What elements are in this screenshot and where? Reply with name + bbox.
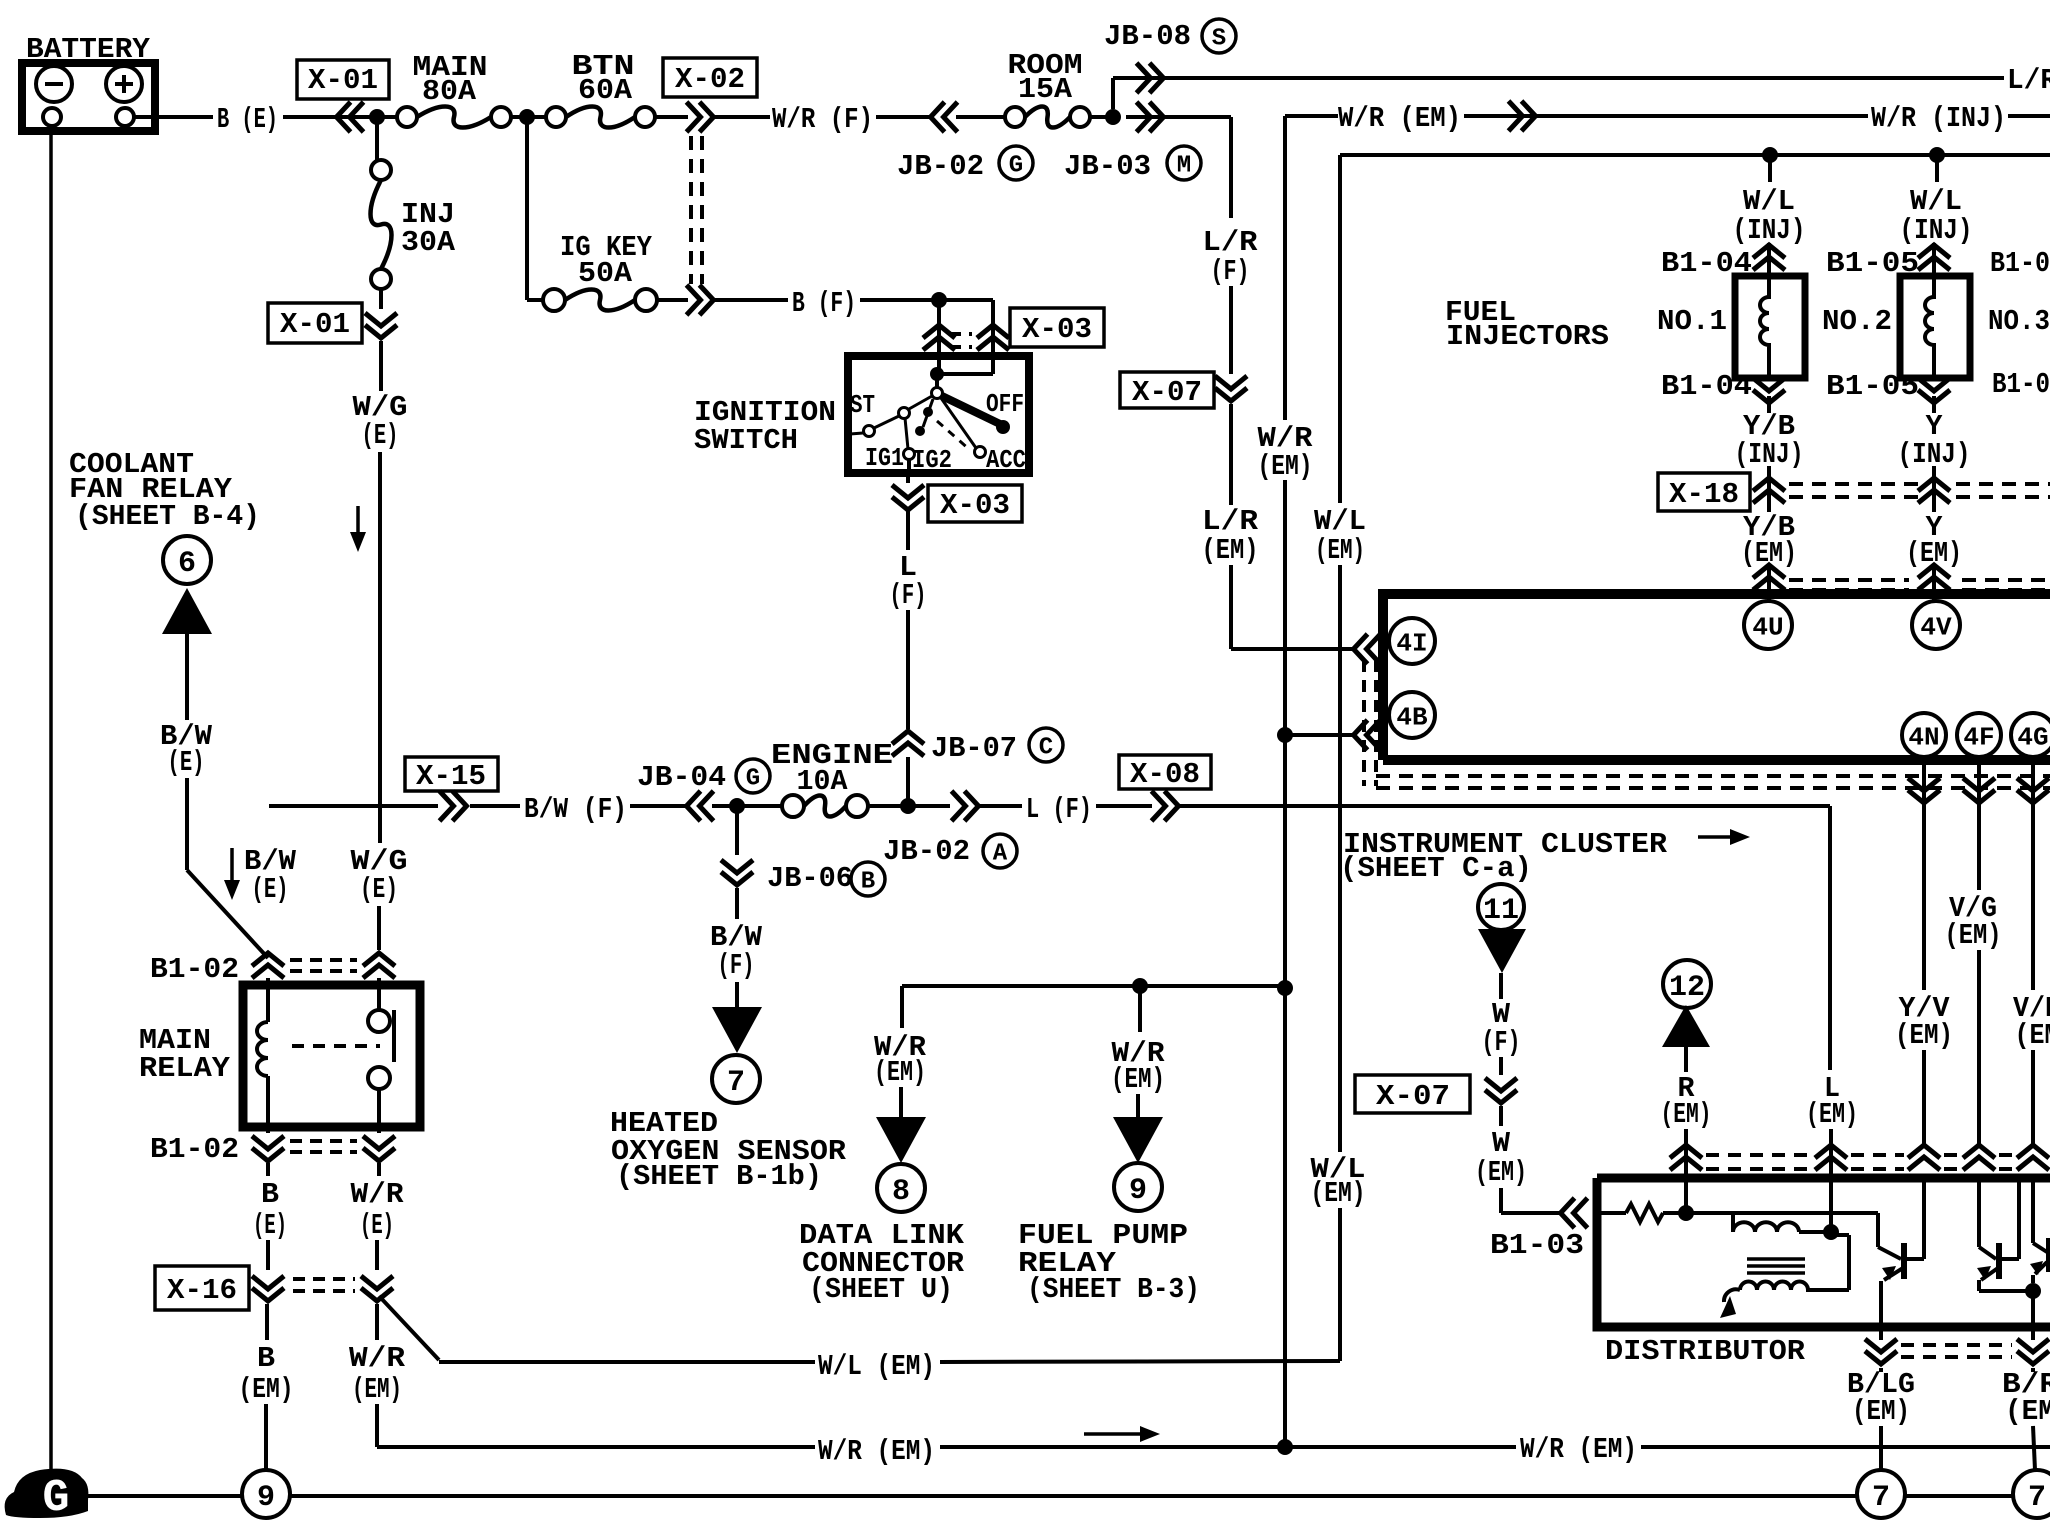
ignition contact ST <box>899 408 910 419</box>
svg-text:B1-0: B1-0 <box>1990 247 2050 280</box>
transistor Q3 bar <box>2046 1238 2050 1272</box>
svg-text:6: 6 <box>178 547 196 581</box>
svg-text:X-01: X-01 <box>280 308 350 341</box>
svg-text:B1-0: B1-0 <box>1992 368 2050 401</box>
battery negative terminal symbol <box>36 66 72 102</box>
distributor bottom dashed <box>1901 1343 2012 1347</box>
annotation arrow down B/W <box>230 848 234 886</box>
svg-text:B: B <box>861 869 875 896</box>
ignition contact IG2 <box>915 426 925 436</box>
connector X-03 chevron down <box>892 485 924 510</box>
ECU top dashed boundary <box>1789 578 1909 582</box>
junction JB-02A chevron <box>952 791 979 821</box>
wire W/R(EM) to chevron <box>1464 114 1868 118</box>
svg-text:NO.2: NO.2 <box>1822 305 1892 338</box>
svg-text:(EM): (EM) <box>1852 1395 1910 1428</box>
wire fuse to L junction <box>868 804 906 808</box>
wire B/W(F) left corner <box>269 804 438 808</box>
svg-text:(E): (E) <box>362 419 399 452</box>
svg-text:8: 8 <box>892 1175 910 1209</box>
svg-text:(EM: (EM <box>2015 1019 2050 1052</box>
circle 6 coolant fan relay <box>163 536 211 584</box>
wire W/R(EM) to ECU pin 4B <box>1285 733 1352 737</box>
wire coil to transistor base <box>1686 1211 1878 1215</box>
node junction dot JB-04 <box>729 798 745 814</box>
wire R(EM) <box>1684 1047 1688 1072</box>
ECU pin 4V circle <box>1912 601 1960 649</box>
connector X-15 chevron <box>440 791 467 821</box>
arrow instrument cluster <box>1698 835 1736 839</box>
ignition dashed linkage <box>937 421 970 450</box>
svg-text:(EM): (EM) <box>1806 1098 1858 1131</box>
wire between fuses <box>511 115 546 119</box>
svg-text:7: 7 <box>727 1066 745 1100</box>
wire to INJ fuse <box>375 117 379 160</box>
svg-text:B1-02: B1-02 <box>150 953 239 986</box>
connector X-02 dashed boundary <box>689 136 693 284</box>
svg-text:(EM): (EM) <box>1475 1156 1527 1189</box>
svg-text:10A: 10A <box>797 765 849 798</box>
svg-text:(EM: (EM <box>2005 1395 2050 1428</box>
connector X-16 box <box>155 1266 249 1310</box>
connector B1-04 chevron up <box>1753 245 1785 270</box>
svg-text:B: B <box>261 1178 279 1211</box>
svg-text:B: B <box>257 1342 275 1375</box>
svg-text:4B: 4B <box>1396 702 1428 732</box>
connector X-18 chevron 1 <box>1753 478 1785 503</box>
injector NO.2 coil <box>1925 276 1934 378</box>
node junction dot after ROOM fuse <box>1105 109 1121 125</box>
svg-text:9: 9 <box>257 1481 275 1515</box>
wire ROOM fuse to junction <box>1090 115 1113 119</box>
wire Y to ECU <box>1932 565 1936 601</box>
svg-text:S: S <box>1212 26 1226 53</box>
arrow from data link 12 <box>1662 1005 1710 1047</box>
wire top line to L/R sheet <box>1113 76 2004 80</box>
connector X-08 chevron <box>1152 791 1179 821</box>
circle 8 data link connector <box>877 1164 925 1212</box>
svg-text:(F): (F) <box>718 949 755 982</box>
svg-text:(EM): (EM) <box>1315 534 1365 567</box>
svg-text:W/R (EM): W/R (EM) <box>1520 1433 1637 1466</box>
junction JB-03 chevron <box>1137 102 1164 132</box>
fuse INJ 30A vertical <box>371 160 391 180</box>
connector B1-03 chevron <box>1561 1198 1588 1228</box>
wire B(E) below relay <box>266 1163 270 1176</box>
wire B/W(F) down <box>735 888 739 919</box>
transistor Q1 base path <box>1876 1213 1880 1247</box>
circle 12 data link <box>1663 960 1711 1008</box>
svg-text:OFF: OFF <box>986 389 1024 419</box>
wire INJ fuse to X-01 <box>379 289 383 309</box>
junction JB chevron left <box>931 102 958 132</box>
wire to ROOM fuse <box>956 115 1005 119</box>
svg-text:(EM): (EM) <box>1945 919 2002 952</box>
node distributor output dot <box>2025 1283 2041 1299</box>
svg-text:W/R (INJ): W/R (INJ) <box>1871 102 2006 135</box>
svg-text:NO.1: NO.1 <box>1657 305 1727 338</box>
fuel injector NO.1 box <box>1735 276 1805 378</box>
svg-text:(F): (F) <box>1211 255 1250 288</box>
wire Y/V from ECU 4N <box>1922 806 1926 990</box>
connector chevron W/R INJ <box>1509 101 1536 131</box>
ECU pin 4B circle <box>1389 692 1435 738</box>
transistor Q3 emitter <box>2035 1262 2047 1274</box>
wire B(E) battery positive to X-01 <box>134 115 213 119</box>
battery terminal posts <box>43 108 61 126</box>
transistor Q2 bar <box>1996 1243 2002 1279</box>
wire L/R(F) corner down <box>1229 117 1233 218</box>
svg-text:G: G <box>746 766 760 793</box>
transistor Q1 collector <box>1906 1257 1924 1261</box>
wire L/R(EM) down <box>1229 404 1233 505</box>
wire BTN fuse to X-02 <box>655 115 688 119</box>
svg-text:JB-02: JB-02 <box>897 150 984 183</box>
svg-text:(F): (F) <box>1482 1026 1521 1059</box>
connector X-15 box <box>405 757 498 791</box>
arrow to heated oxygen sensor <box>712 1007 762 1053</box>
svg-text:11: 11 <box>1483 894 1519 928</box>
svg-text:A: A <box>993 841 1008 868</box>
svg-text:X-02: X-02 <box>675 63 745 96</box>
svg-text:W/R (F): W/R (F) <box>772 103 873 136</box>
connector B1-02 chevrons bottom <box>252 1136 284 1161</box>
svg-text:(E): (E) <box>360 1209 394 1242</box>
svg-text:(SHEET U): (SHEET U) <box>809 1273 953 1306</box>
wire W/R(EM) long horizontal <box>377 1445 815 1449</box>
svg-text:JB-03: JB-03 <box>1064 150 1151 183</box>
wire Y/B to ECU <box>1767 565 1771 601</box>
svg-text:ACC: ACC <box>986 445 1026 475</box>
ECU pin 4G circle <box>2011 713 2050 757</box>
fuse BTN 60A <box>546 107 566 127</box>
ECU pin 4I circle <box>1389 618 1435 664</box>
svg-text:B (E): B (E) <box>217 103 278 136</box>
svg-text:12: 12 <box>1669 971 1705 1005</box>
node ignition coil junction dot <box>1678 1205 1694 1221</box>
svg-text:W/R (EM): W/R (EM) <box>818 1435 935 1468</box>
ignition contact IG1 <box>904 449 915 460</box>
distributor connector chevrons <box>1670 1145 1702 1170</box>
connector X-01 second box <box>268 303 362 343</box>
arrow from coolant fan relay <box>162 588 212 634</box>
node junction dot W/R accessory feed <box>1277 980 1293 996</box>
resistor B1-03 input <box>1597 1211 1626 1215</box>
main relay dashed linkage <box>292 1044 380 1048</box>
svg-text:B1-03: B1-03 <box>1490 1229 1584 1262</box>
svg-text:SWITCH: SWITCH <box>694 424 798 457</box>
wire JB-06 branch down <box>735 806 739 855</box>
svg-text:4I: 4I <box>1396 628 1427 658</box>
svg-text:L (F): L (F) <box>1026 793 1092 826</box>
svg-text:7: 7 <box>1872 1481 1890 1515</box>
wire B(F) into ignition switch right <box>991 300 995 356</box>
connector X-02 chevron on B wire <box>687 285 714 315</box>
wire BTN junction down to IG KEY fuse <box>525 117 529 300</box>
battery positive terminal symbol <box>106 66 142 102</box>
wire W/R(E) below relay <box>377 1163 381 1176</box>
svg-text:W/R: W/R <box>351 1178 405 1211</box>
circle 9 fuel pump relay <box>1114 1163 1162 1211</box>
svg-text:B1-04: B1-04 <box>1661 370 1752 403</box>
ECU bottom dashed boundary <box>1376 774 2050 778</box>
connector B1-02 chevrons top <box>252 953 284 978</box>
wire W/R to L/R corner <box>1126 115 1231 119</box>
wire W/L(EM) vertical <box>1338 565 1342 1152</box>
transistor Q1 bar <box>1901 1243 1907 1279</box>
wire V/G from ECU 4F <box>1977 806 1981 890</box>
connector B1 chevron up at ECU 2 <box>1918 565 1950 590</box>
svg-text:X-08: X-08 <box>1130 758 1200 791</box>
connector X-18 dashed boundary <box>1789 482 1918 486</box>
svg-text:M: M <box>1177 153 1191 180</box>
svg-text:80A: 80A <box>422 75 477 108</box>
circle 7 ground right 1 <box>1857 1470 1905 1518</box>
connector X-16 dashed <box>293 1277 355 1281</box>
svg-text:JB-07: JB-07 <box>931 732 1017 765</box>
junction JB-06 chevron down <box>721 860 753 885</box>
wire W/L(INJ) stub 1 <box>1768 155 1772 182</box>
ignition switch box <box>848 356 1029 473</box>
transistor Q2 base path <box>1977 1178 1981 1247</box>
svg-text:7: 7 <box>2028 1481 2046 1515</box>
annotation arrow down W/G <box>356 506 360 538</box>
wire B/R to ground 7 <box>2031 1368 2035 1372</box>
wire W(EM) <box>1499 1106 1503 1126</box>
svg-text:JB-04: JB-04 <box>637 761 726 794</box>
arrow into sheet 11 <box>1478 929 1526 973</box>
wire W/L(EM) to bottom corner <box>1338 1208 1342 1361</box>
wire W/G(E) down <box>379 341 383 391</box>
connector X-07 box 2 <box>1355 1075 1470 1113</box>
ground symbol G body <box>5 1469 89 1518</box>
wire secondary to L <box>1806 1288 1849 1292</box>
wire coil top <box>1684 1178 1688 1213</box>
wire W/R(EM) vertical <box>1283 116 1287 420</box>
svg-text:(SHEET B-3): (SHEET B-3) <box>1027 1273 1200 1306</box>
connector X-02 box <box>663 58 757 97</box>
svg-text:4N: 4N <box>1908 722 1939 752</box>
wire injector 2 to X-18 <box>1932 396 1936 413</box>
svg-text:C: C <box>1039 735 1053 762</box>
svg-text:W/R (EM): W/R (EM) <box>1338 102 1461 135</box>
svg-text:(EM): (EM) <box>1202 534 1259 567</box>
distributor connector dashed <box>1706 1153 1810 1157</box>
svg-text:60A: 60A <box>578 74 633 107</box>
wire W/L(EM) long horizontal <box>439 1360 815 1364</box>
ignition contact ACC <box>975 447 986 458</box>
connector X-18 box <box>1658 473 1750 511</box>
svg-text:X-01: X-01 <box>308 64 378 97</box>
battery box <box>22 63 155 131</box>
main relay contact top <box>377 978 381 1010</box>
svg-text:(EM): (EM) <box>1895 1019 1953 1052</box>
transistor Q3 base path <box>2031 1178 2035 1243</box>
transistor Q2 collector <box>2001 1257 2019 1261</box>
svg-text:(E): (E) <box>252 873 289 906</box>
node junction dot BTN feed <box>519 109 535 125</box>
svg-text:(E): (E) <box>168 746 205 779</box>
node junction dot main feed <box>369 109 385 125</box>
svg-text:G: G <box>42 1473 69 1520</box>
wire to fuel pump relay 9 <box>1138 986 1142 1032</box>
ignition coil secondary <box>1740 1282 1808 1291</box>
annotation arrow right W/R <box>1084 1432 1146 1436</box>
main relay blade <box>392 1010 396 1062</box>
svg-text:IG2: IG2 <box>912 445 952 475</box>
connector B1 chevron up at ECU <box>1753 565 1785 590</box>
wire L(F) down <box>906 510 910 550</box>
wire injector 1 to X-18 <box>1767 396 1771 413</box>
transistor Q1 emitter <box>1884 1268 1903 1280</box>
arrow to data link connector <box>876 1117 926 1163</box>
junction JB-04 chevron <box>687 791 714 821</box>
ECU pin 4B chevron <box>1354 720 1381 750</box>
wire battery negative to ground <box>49 131 53 1472</box>
svg-text:30A: 30A <box>401 226 456 259</box>
wire W/L(INJ) feed corner <box>1340 153 2050 157</box>
connector X-02 chevron on W/R wire <box>687 102 714 132</box>
svg-text:X-15: X-15 <box>416 760 486 793</box>
connector B1-05 chevron down <box>1918 378 1950 403</box>
svg-text:IG1: IG1 <box>865 443 904 473</box>
svg-text:X-03: X-03 <box>1022 313 1092 346</box>
connector X-01 box <box>297 60 389 99</box>
ignition rotor pivot <box>932 388 943 399</box>
ignition contact near pivot <box>923 407 933 417</box>
wire B(EM) <box>265 1304 269 1340</box>
ECU pin 4F circle <box>1957 713 2001 757</box>
ECU output chevron 4G <box>2031 760 2035 806</box>
svg-text:G: G <box>1009 153 1023 180</box>
svg-text:B1-05: B1-05 <box>1826 370 1919 403</box>
circle 7 ground right 2 <box>2013 1470 2050 1518</box>
svg-text:INJECTORS: INJECTORS <box>1446 320 1609 353</box>
wire W/L diagonal from X-16 <box>379 1296 439 1360</box>
wire IG1 output <box>907 459 911 473</box>
node coil L junction dot <box>1823 1224 1839 1240</box>
svg-text:JB-08: JB-08 <box>1104 20 1191 53</box>
circle 9 ground joint <box>242 1470 290 1518</box>
svg-text:4G: 4G <box>2017 722 2048 752</box>
svg-text:JB-02: JB-02 <box>883 835 970 868</box>
wire V/R from ECU 4G <box>2031 806 2035 990</box>
svg-text:(E): (E) <box>360 873 398 906</box>
circle 11 instrument cluster <box>1478 884 1524 930</box>
svg-text:B/W (F): B/W (F) <box>524 793 627 826</box>
connector X-07 box <box>1120 372 1214 408</box>
svg-text:X-16: X-16 <box>167 1274 237 1307</box>
svg-text:W/L (EM): W/L (EM) <box>818 1350 935 1383</box>
svg-text:(E): (E) <box>253 1209 287 1242</box>
svg-text:15A: 15A <box>1018 73 1073 106</box>
wire L(F) to fuse junction <box>906 757 910 806</box>
fuse MAIN 80A <box>397 107 417 127</box>
svg-text:4F: 4F <box>1963 722 1994 752</box>
junction JB-07 chevron up <box>892 731 924 756</box>
wire to data link connector 8 <box>900 986 904 1028</box>
circle 7 heated oxygen sensor <box>712 1055 760 1103</box>
ignition coil core <box>1747 1257 1805 1261</box>
wire L(F) right <box>908 804 950 808</box>
ignition switch internal feed wires <box>937 356 941 374</box>
wire W(F) <box>1499 973 1503 999</box>
svg-text:4U: 4U <box>1752 612 1783 642</box>
node ignition common dot <box>930 367 944 381</box>
ECU output chevron 4F <box>1977 760 1981 806</box>
svg-text:X-03: X-03 <box>940 489 1010 522</box>
node junction dot L(F) <box>900 798 916 814</box>
transistor Q2 emitter <box>1981 1268 1998 1280</box>
ignition coil primary <box>1731 1213 1735 1232</box>
svg-text:(EM): (EM) <box>874 1056 926 1089</box>
connector X-03 chevrons <box>923 325 955 350</box>
svg-text:W/R: W/R <box>349 1342 406 1375</box>
connector X-16 chevrons <box>252 1276 284 1301</box>
svg-text:50A: 50A <box>578 257 633 290</box>
svg-text:X-18: X-18 <box>1669 478 1739 511</box>
connector B1-04 chevron down <box>1753 378 1785 403</box>
node injector NO.2 feed dot <box>1929 147 1945 163</box>
svg-text:(SHEET B-4): (SHEET B-4) <box>75 500 260 533</box>
node junction dot W/R to ECU 4B <box>1277 727 1293 743</box>
svg-text:(EM): (EM) <box>1661 1098 1712 1131</box>
arrow to fuel pump relay <box>1113 1117 1163 1163</box>
wire L(EM) from cluster corner <box>1828 806 1832 1070</box>
svg-text:(EM): (EM) <box>1311 1177 1366 1210</box>
distributor box <box>1597 1178 2050 1327</box>
node injector NO.1 feed dot <box>1762 147 1778 163</box>
junction JB-08 chevron <box>1137 63 1164 93</box>
wire JB-08 riser <box>1111 78 1115 109</box>
main relay box <box>243 985 420 1127</box>
fuel injector NO.2 box <box>1900 276 1970 378</box>
svg-text:JB-06: JB-06 <box>767 862 853 895</box>
fuse ROOM 15A <box>1005 107 1025 127</box>
node junction dot B(F) <box>931 292 947 308</box>
svg-text:B1-02: B1-02 <box>150 1133 239 1166</box>
wire B/LG to ground 7 <box>1879 1368 1883 1372</box>
svg-text:4V: 4V <box>1920 612 1952 642</box>
connector B1-05 chevron up <box>1918 245 1950 270</box>
injector NO.1 coil <box>1760 276 1769 378</box>
wire W/R(EM) below X-16 <box>375 1304 379 1340</box>
main relay coil wire <box>266 978 270 1022</box>
wire B/W(E) from coolant fan <box>185 634 189 720</box>
wire IG KEY to X-02 <box>657 298 688 302</box>
wire L/R(EM) to ECU pin 4I <box>1231 647 1352 651</box>
connector X-07 chevron down <box>1215 376 1247 401</box>
wire B(F) into ignition switch left <box>937 300 941 356</box>
ECU engine control unit box <box>1383 594 2050 760</box>
connector X-08 box <box>1119 755 1211 789</box>
connector B1-02 dashed top <box>290 958 357 962</box>
main relay contact bottom <box>368 1067 390 1089</box>
wire W/R(F) <box>712 115 770 119</box>
svg-text:(SHEET B-1b): (SHEET B-1b) <box>616 1160 822 1193</box>
node junction dot W/R bottom <box>1277 1439 1293 1455</box>
connector X-03 second box <box>928 485 1022 522</box>
svg-text:X-07: X-07 <box>1132 376 1202 409</box>
svg-text:(F): (F) <box>890 579 927 612</box>
wire B/W diagonal to main relay <box>187 870 268 958</box>
ignition OFF blade <box>942 396 1000 424</box>
svg-text:(EM): (EM) <box>239 1373 294 1406</box>
wire W(EM) to distributor <box>1501 1211 1560 1215</box>
svg-text:(EM): (EM) <box>1111 1063 1165 1096</box>
svg-text:ST: ST <box>850 390 875 420</box>
svg-text:(EM): (EM) <box>352 1373 402 1406</box>
